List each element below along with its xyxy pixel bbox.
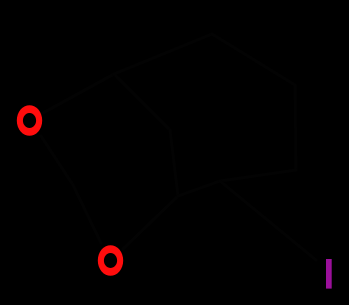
bond C7-C8 bbox=[295, 85, 296, 170]
bond C2-O3 bbox=[73, 185, 101, 243]
bond C5-C6 bbox=[114, 34, 212, 74]
atom O3 (bottom oxygen, red O glyph) bbox=[98, 245, 123, 276]
bond C5-C4b bbox=[114, 74, 170, 130]
bond C9-C4 bbox=[178, 181, 220, 196]
bond C8-C9 bbox=[220, 170, 296, 181]
bond O1-C5 bbox=[43, 74, 114, 113]
atom O1 (top oxygen, red O glyph) bbox=[17, 105, 42, 136]
bond C4b-C4 bbox=[170, 130, 178, 196]
atom I (iodine, purple bar glyph) bbox=[326, 259, 332, 289]
bond C9-I bbox=[220, 181, 316, 260]
bond O1-C2 bbox=[41, 136, 73, 185]
bond O3-C4 bbox=[123, 196, 178, 249]
bond C6-C7 bbox=[212, 34, 295, 85]
